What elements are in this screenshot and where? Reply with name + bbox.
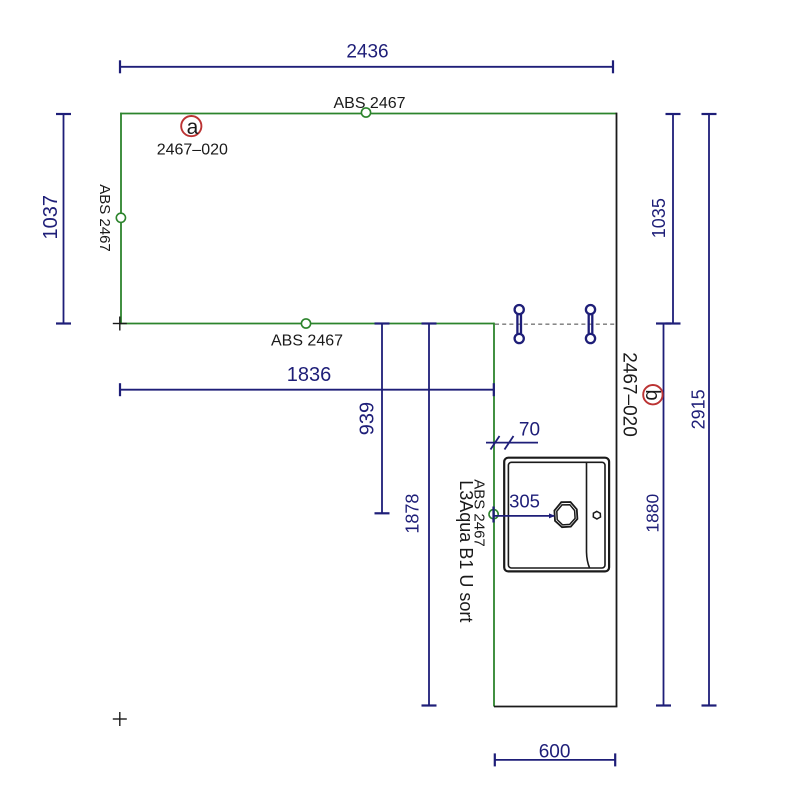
- worktop left edge (ABS, green): [120, 113, 122, 324]
- svg-text:ABS 2467: ABS 2467: [271, 332, 343, 349]
- worktop right edge (black): [616, 113, 618, 707]
- edge marker circle (lower edge): [301, 319, 310, 328]
- dimension 70 (sink offset): [486, 436, 538, 450]
- sink faucet hole: [593, 511, 600, 519]
- worktop connector bolt 1: [515, 305, 524, 343]
- sink drain outer octagon: [554, 502, 577, 527]
- edge marker circle (top edge): [361, 108, 370, 117]
- worktop joint line (dashed): [495, 323, 616, 325]
- sink drain inner octagon: [557, 505, 575, 525]
- dimension 305 (sink drain offset): [494, 507, 555, 523]
- svg-text:2467–020: 2467–020: [157, 141, 228, 158]
- dimension 1037 (left): [56, 114, 71, 324]
- svg-text:ABS 2467: ABS 2467: [96, 184, 113, 252]
- dimension 2915 (far right full height): [702, 114, 717, 706]
- svg-text:L3Aqua B1 U sort: L3Aqua B1 U sort: [456, 480, 476, 622]
- edge marker circle (left edge): [116, 213, 125, 222]
- edge marker circle (inner edge): [489, 510, 498, 519]
- sink bowl divider: [587, 463, 590, 568]
- part label b circle (red): [643, 385, 662, 404]
- part label a circle (red): [181, 116, 201, 136]
- svg-text:1878: 1878: [402, 494, 422, 534]
- svg-text:1037: 1037: [40, 195, 62, 240]
- svg-text:305: 305: [509, 491, 540, 512]
- sink outer rim: [504, 458, 609, 572]
- dimension 1035 (right of upper section): [666, 114, 681, 324]
- dimension 1878 (vertical, middle): [422, 324, 437, 706]
- arrowhead of 305 dimension: [549, 513, 555, 518]
- svg-text:1836: 1836: [287, 364, 332, 386]
- svg-text:1880: 1880: [643, 493, 663, 532]
- sink inner bowl outline: [508, 462, 605, 568]
- dimension 939 (vertical, middle): [375, 324, 390, 514]
- svg-text:70: 70: [519, 420, 540, 441]
- dimension 600 (bottom): [495, 753, 615, 766]
- worktop lower edge of upper-left section (ABS, green): [120, 323, 494, 325]
- svg-text:2436: 2436: [346, 42, 388, 63]
- datum cross bottom-left: [113, 712, 127, 726]
- svg-text:600: 600: [539, 742, 571, 763]
- worktop top edge (ABS, green): [120, 113, 616, 115]
- dimension 1880 (right of lower section): [656, 324, 671, 706]
- dimension 1836 (below upper section): [120, 383, 494, 396]
- dimension 2436 (top): [120, 60, 613, 73]
- svg-text:b: b: [641, 390, 663, 401]
- worktop connector bolt 2: [586, 305, 595, 343]
- svg-text:2915: 2915: [689, 389, 709, 429]
- svg-text:2467–020: 2467–020: [618, 352, 639, 437]
- datum cross at inner corner: [113, 317, 127, 331]
- worktop inner vertical edge (ABS, green): [493, 323, 495, 707]
- svg-text:1035: 1035: [649, 198, 669, 238]
- svg-text:a: a: [187, 116, 199, 139]
- worktop bottom edge of right section (black): [494, 706, 617, 708]
- svg-text:939: 939: [357, 402, 379, 435]
